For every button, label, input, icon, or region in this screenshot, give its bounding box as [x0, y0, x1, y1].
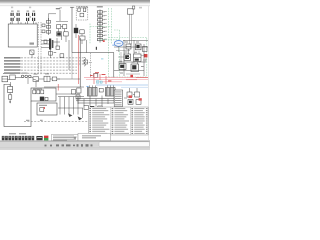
toolbar faint marks: [11, 6, 142, 8]
transformer T1: [88, 85, 98, 96]
lower bus wires: [76, 99, 120, 103]
fuse F1: [2, 76, 8, 82]
resistor R1: [30, 50, 34, 55]
tick marks left of title box: [74, 136, 77, 139]
label: [56, 8, 60, 9]
relay K2 contacts: [26, 11, 35, 21]
wires from relays to A1: [12, 16, 33, 24]
bus drop wires: [78, 96, 114, 107]
relay K5: [124, 54, 131, 61]
red feed segments: [136, 77, 148, 79]
relay K4: [44, 76, 50, 81]
charger outline box: [4, 84, 31, 127]
sensor B2: [42, 30, 45, 33]
legend table: [89, 107, 149, 135]
center details: [113, 53, 115, 78]
contact block K8.1: [44, 40, 47, 44]
maker logo: [36, 136, 42, 140]
terminal box X5: [114, 90, 122, 107]
relay K7: [131, 64, 139, 72]
wires of band: [8, 78, 60, 88]
cluster fine wires: [116, 46, 146, 74]
module U2: [90, 106, 94, 110]
resistor R2: [52, 77, 57, 81]
main vertical feed wire: [71, 7, 73, 53]
sensor B1: [42, 24, 45, 27]
red link: [144, 54, 148, 57]
title box: [78, 133, 111, 140]
aux contact: [56, 46, 60, 49]
connector hooks: [84, 57, 85, 66]
wire: [31, 55, 33, 59]
center vertical bus: [79, 38, 81, 87]
wire list labels X10: [4, 57, 21, 73]
module A2: [74, 28, 78, 33]
red link 2: [130, 75, 133, 78]
connector rail X1 (dashed): [38, 22, 41, 75]
red labels: [90, 72, 111, 81]
cluster wires: [114, 40, 148, 76]
lamp pole E1: [130, 14, 132, 44]
comb drop wires with plugs: [60, 97, 83, 118]
dashed wires from list: [21, 58, 84, 73]
terminal strip X2: [99, 10, 101, 43]
relay K3: [57, 25, 69, 36]
wire stubs on A1 top: [11, 22, 37, 24]
small ticks: [26, 120, 29, 121]
red drop wires: [58, 73, 106, 91]
cluster labels: [119, 42, 146, 74]
transformer T2: [106, 85, 116, 96]
wires K3: [59, 27, 66, 42]
sensor B3: [94, 74, 98, 78]
link wires upper: [49, 14, 69, 22]
dashed return wire: [90, 53, 92, 78]
switch S1: [10, 75, 15, 80]
link between transformers: [99, 88, 103, 92]
page background: [0, 0, 150, 150]
contactor Q2: [136, 44, 142, 50]
inverter module U1: [84, 106, 88, 110]
page right border: [147, 6, 150, 140]
band labels: [3, 73, 49, 75]
pink bus wires: [84, 78, 148, 82]
status bar: [0, 141, 150, 150]
control unit A1: [8, 24, 37, 47]
wire band into box: [4, 84, 10, 86]
charger sub box A6: [37, 103, 57, 115]
diode V1: [33, 77, 39, 82]
relay K1 contacts: [11, 11, 20, 21]
wire: [59, 10, 61, 21]
dashed unit A3: [76, 6, 88, 20]
toolbar: [0, 0, 150, 6]
contactor Q1: [126, 44, 131, 49]
battery chain: switch: [8, 95, 11, 99]
diode chain V2: [46, 18, 50, 35]
section dashed divider: [24, 121, 88, 123]
wire: [86, 40, 88, 53]
coil relay K8: [49, 39, 51, 50]
instrument box A5: [31, 88, 56, 101]
left chain parts: [77, 88, 81, 93]
battery chain wires: [9, 84, 11, 103]
plug circles X3: [21, 75, 31, 78]
fuse F2: [143, 47, 148, 52]
aux cluster A4: [127, 92, 141, 104]
symbol legend row: [2, 133, 34, 140]
meter P1: [40, 97, 44, 101]
plug arrows: [68, 113, 72, 117]
blue wire: [96, 84, 148, 86]
module U3: [98, 106, 102, 111]
notes box: [52, 134, 79, 140]
red supply wire: [78, 35, 80, 84]
resistor R3: [119, 64, 126, 70]
battery chain: fuse: [8, 87, 13, 93]
horizontal bus: [72, 52, 114, 54]
lower link wires: [57, 78, 80, 80]
red marker: [103, 40, 105, 42]
bus to comb: [44, 87, 84, 108]
cyan connectors: [96, 81, 99, 84]
aux valve Y1: [72, 90, 76, 95]
aux resistor: [49, 52, 53, 56]
K8 wires: [41, 38, 69, 70]
motor M1: [114, 41, 123, 47]
aux box: [60, 54, 64, 57]
green harness wiring: [90, 8, 147, 77]
relay K6: [134, 54, 142, 62]
